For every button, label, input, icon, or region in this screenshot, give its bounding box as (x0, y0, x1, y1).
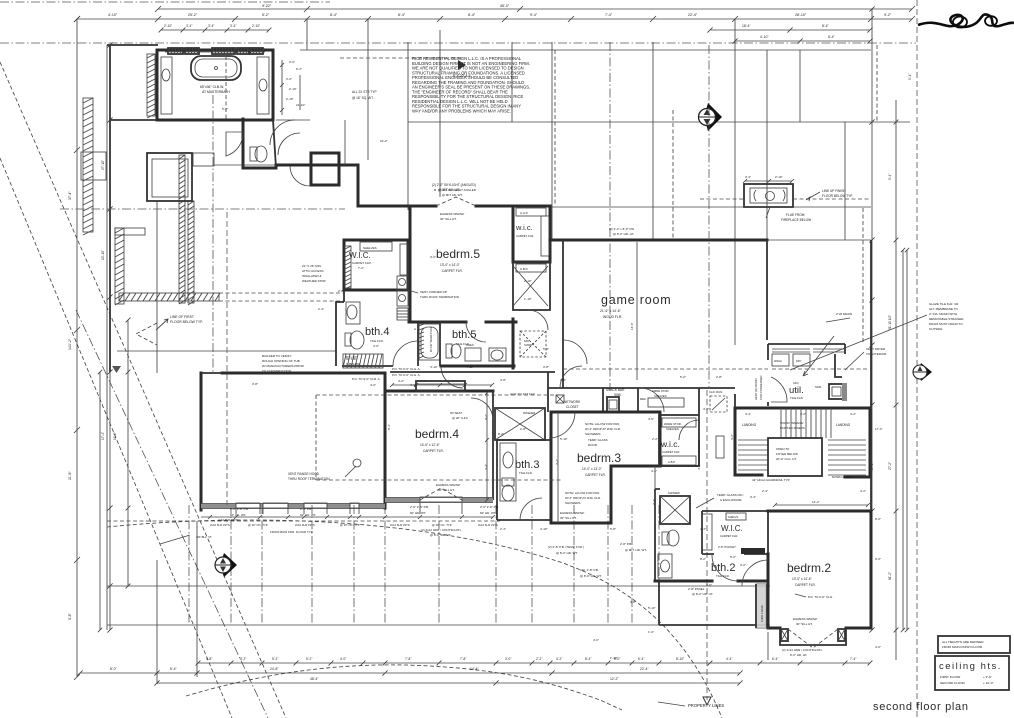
top guide vertical x307 (306, 19, 308, 50)
svg-text:OPEN TO: OPEN TO (776, 447, 790, 451)
svg-text:3'-8": 3'-8" (630, 600, 636, 604)
wic bottom box (662, 456, 696, 465)
svg-text:7'-8": 7'-8" (405, 657, 411, 661)
svg-text:ALL 2X STR TYP: ALL 2X STR TYP (352, 90, 377, 94)
svg-text:4'-2": 4'-2" (398, 379, 404, 383)
top guide vertical x440 (439, 30, 441, 197)
svg-text:22'-4": 22'-4" (688, 13, 698, 17)
bottom dim line y673 (80, 672, 740, 674)
svg-text:CEI. 2'-8" P.B.: CEI. 2'-8" P.B. (580, 568, 599, 572)
svg-text:20F BLL. VT.: 20F BLL. VT. (196, 535, 212, 539)
grid dash-dot verticals bottom (188, 505, 190, 625)
svg-text:3'-4": 3'-4" (208, 24, 214, 28)
svg-text:FOYER BELOW: FOYER BELOW (776, 452, 798, 456)
bth5 toilet (446, 344, 452, 358)
wic left walls (344, 240, 408, 290)
svg-text:3'-0": 3'-0" (505, 657, 511, 661)
north/street squiggle symbol top right (918, 14, 1014, 27)
corridor stepped wall (276, 165, 410, 206)
svg-text:9'-0" HD. HT.: 9'-0" HD. HT. (790, 653, 807, 657)
svg-text:@ 8FT AD. WT.: @ 8FT AD. WT. (438, 188, 460, 192)
svg-text:5'-0": 5'-0" (730, 555, 736, 559)
bth3 toilet (502, 478, 514, 486)
bth5 bottom wall (441, 365, 514, 368)
door arc bedrm4 entry (471, 398, 493, 420)
svg-text:FIREPLACE BELOW: FIREPLACE BELOW (781, 218, 811, 222)
svg-text:60"x42" WHIRLPOOL: 60"x42" WHIRLPOOL (429, 326, 433, 352)
svg-text:8'-1": 8'-1" (387, 424, 391, 430)
svg-text:+ 10'-0": + 10'-0" (983, 681, 994, 685)
bedrm4 top dim line (392, 384, 492, 386)
svg-text:bth.4: bth.4 (365, 326, 389, 338)
svg-text:21'-6" x 14'-6": 21'-6" x 14'-6" (600, 309, 622, 313)
svg-text:LINE OF FIRST: LINE OF FIRST (170, 315, 194, 319)
svg-text:TEMP. GLASS: TEMP. GLASS (588, 438, 608, 442)
svg-text:8'-4": 8'-4" (468, 13, 476, 17)
svg-text:EGRESS WNDW/: EGRESS WNDW/ (440, 212, 464, 216)
svg-text:48'-4": 48'-4" (310, 677, 319, 681)
svg-text:DRAIN MUST DRAIN TO: DRAIN MUST DRAIN TO (929, 322, 963, 326)
roof vline x408 (407, 42, 409, 210)
util dashed line (772, 368, 868, 370)
bottom long line y625 (107, 624, 770, 626)
svg-text:SHELVES: SHELVES (654, 394, 667, 398)
svg-text:7'-8": 7'-8" (460, 657, 466, 661)
svg-text:8'-2": 8'-2" (700, 557, 706, 561)
svg-text:W/ SEAT: W/ SEAT (450, 411, 462, 415)
svg-text:bedrm.5: bedrm.5 (436, 247, 480, 261)
guide horizontal y165 left (214, 164, 276, 166)
svg-text:W.I.C.: W.I.C. (349, 251, 371, 260)
svg-text:2'-4": 2'-4" (318, 307, 324, 311)
open room window sills (236, 503, 260, 508)
svg-text:28'-10": 28'-10" (795, 13, 807, 17)
svg-text:THRU ROOF TERMINATION: THRU ROOF TERMINATION (420, 295, 459, 299)
roof vline x767 (766, 50, 768, 240)
svg-text:LINEN: LINEN (466, 343, 474, 347)
svg-text:4'-6": 4'-6" (648, 417, 654, 421)
bth4 sink (347, 305, 357, 319)
svg-text:21'-10": 21'-10" (296, 103, 305, 107)
svg-text:9'-4": 9'-4" (888, 174, 892, 180)
svg-text:17'-4": 17'-4" (875, 427, 883, 431)
svg-text:2"x8 DRAIN: 2"x8 DRAIN (836, 312, 852, 316)
svg-text:W/ MANUFACTURERS PRIOR: W/ MANUFACTURERS PRIOR (262, 364, 305, 368)
svg-text:SPA: SPA (524, 339, 529, 343)
svg-text:FLUE FROM: FLUE FROM (786, 213, 805, 217)
svg-text:9'-4": 9'-4" (530, 13, 538, 17)
svg-text:2x12 FLR JSTS: 2x12 FLR JSTS (390, 523, 410, 527)
svg-text:2'-2": 2'-2" (536, 657, 542, 661)
bottom dim line y663 (198, 662, 870, 664)
bth3 door arc (520, 498, 542, 520)
svg-text:SHWR: SHWR (524, 343, 532, 347)
roof vline x673 dashed (672, 110, 674, 240)
roof vline x653 (652, 42, 654, 240)
section marker circle bottom left (215, 553, 237, 577)
svg-text:7'-4": 7'-4" (850, 657, 856, 661)
bedrm5 window peak (436, 197, 476, 206)
svg-text:W/ 3" DROP AT 2ND. FLR.: W/ 3" DROP AT 2ND. FLR. (585, 427, 621, 431)
util walls (768, 344, 845, 406)
svg-text:5'-2": 5'-2" (222, 107, 228, 111)
wic2 walls (702, 511, 768, 554)
vent corner note (408, 290, 418, 293)
svg-text:7'-2": 7'-2" (358, 266, 364, 270)
svg-text:WASH: WASH (774, 359, 782, 363)
bedrm4 bottom wall (385, 498, 493, 503)
svg-text:4'-4": 4'-4" (726, 657, 732, 661)
svg-text:bedrm.2: bedrm.2 (787, 561, 831, 575)
diagonal property line 1 (0, 62, 286, 718)
svg-text:42" HIGH GUARDRAIL TYP.: 42" HIGH GUARDRAIL TYP. (752, 478, 790, 482)
svg-text:+ 9'-0": + 9'-0" (983, 675, 992, 679)
svg-text:ROUGH OPENING OF TUB: ROUGH OPENING OF TUB (262, 359, 300, 363)
svg-text:22'-4": 22'-4" (640, 667, 649, 671)
svg-text:LANDING: LANDING (742, 423, 757, 427)
svg-text:WEATHER STRP.: WEATHER STRP. (302, 279, 326, 283)
svg-text:SHELVS.: SHELVS. (728, 515, 739, 519)
bth2 door arc (712, 555, 738, 581)
top guide vertical x368 (367, 19, 369, 160)
bottom-left vertical x157 (156, 560, 158, 684)
open room right wall (384, 373, 387, 508)
wic shelves box (360, 242, 392, 251)
grid dash-dot horizontal y520 (107, 520, 500, 522)
svg-text:12'-2": 12'-2" (610, 677, 619, 681)
svg-text:5'-8": 5'-8" (610, 527, 616, 531)
section marker circle top middle (699, 103, 723, 131)
svg-text:3'-4": 3'-4" (186, 24, 192, 28)
svg-text:5'-2": 5'-2" (262, 13, 270, 17)
svg-text:W.I.C.: W.I.C. (721, 524, 743, 533)
svg-text:6'-4": 6'-4" (772, 657, 778, 661)
bottom-left vertical x100 (99, 372, 101, 630)
svg-text:24'-8": 24'-8" (270, 667, 279, 671)
svg-text:8'-0": 8'-0" (110, 667, 118, 671)
svg-text:OUTSIDE: OUTSIDE (929, 327, 942, 331)
vent chase dashed vertical x863 (862, 208, 864, 344)
svg-text:5'-2": 5'-2" (272, 657, 278, 661)
corridor bottom wall y388 (548, 387, 735, 389)
svg-text:P.D. TO 9'-0" CLG. A.: P.D. TO 9'-0" CLG. A. (392, 367, 421, 371)
svg-text:FROM MAIN FINISH FLOOR: FROM MAIN FINISH FLOOR (942, 645, 983, 649)
bth2 toilet (662, 532, 669, 545)
hatched band horizontal y230 (115, 228, 145, 235)
svg-text:@ 8'-0" HD. HT.: @ 8'-0" HD. HT. (692, 592, 713, 596)
svg-text:3'-0": 3'-0" (289, 60, 295, 64)
svg-text:WASHER: WASHER (523, 411, 535, 415)
svg-text:2x10 FLR JSTS: 2x10 FLR JSTS (210, 523, 230, 527)
wic fixture boxes below (397, 276, 408, 289)
svg-text:2x10 FLR JSTS: 2x10 FLR JSTS (295, 523, 315, 527)
svg-text:2x12 FLR JSTS: 2x12 FLR JSTS (478, 523, 498, 527)
svg-text:@ 8FT. HD. WT.: @ 8FT. HD. WT. (625, 548, 647, 552)
game room center guide vertical (636, 242, 638, 380)
hall dash line (316, 479, 563, 481)
bedrm3 door arc (549, 412, 575, 438)
svg-text:SECOND FLOOR: SECOND FLOOR (940, 681, 966, 685)
svg-text:25'-2": 25'-2" (188, 13, 198, 17)
svg-text:REMOVABLE STRAINER.: REMOVABLE STRAINER. (929, 317, 964, 321)
svg-text:4'-0": 4'-0" (370, 383, 376, 387)
svg-text:3'-0": 3'-0" (430, 255, 436, 259)
open room left wall (200, 373, 203, 510)
top dimension line 4 right (735, 40, 870, 42)
svg-text:WARE STOR.: WARE STOR. (664, 422, 682, 426)
svg-text:8'-4": 8'-4" (585, 657, 591, 661)
util shelves rows (772, 348, 810, 350)
svg-text:(2) 2'-8" P.B. (TEMP. FXD.): (2) 2'-8" P.B. (TEMP. FXD.) (548, 545, 584, 549)
bedrm2 furr chase (756, 584, 766, 628)
svg-text:TILE FLR.: TILE FLR. (790, 396, 804, 400)
svg-text:W/ 3" DROP AT 2ND. FLR.: W/ 3" DROP AT 2ND. FLR. (565, 496, 601, 500)
svg-text:ATTIC ACCESS: ATTIC ACCESS (302, 269, 323, 273)
svg-text:9'-2": 9'-2" (884, 13, 892, 17)
svg-text:DOOR: DOOR (588, 443, 598, 447)
guide vertical x345 upper (344, 120, 346, 165)
svg-text:8'-4": 8'-4" (822, 24, 830, 28)
svg-text:4'-10": 4'-10" (760, 35, 769, 39)
svg-text:SNACK BAR: SNACK BAR (606, 388, 625, 392)
svg-text:AMRE STOR.: AMRE STOR. (652, 389, 670, 393)
svg-text:8'-4": 8'-4" (828, 35, 836, 39)
svg-text:bth.3: bth.3 (515, 459, 539, 471)
property line right vertical dashed (916, 0, 918, 718)
bth3 tub (500, 443, 516, 501)
svg-text:4'-10": 4'-10" (108, 13, 118, 17)
svg-text:1'-0": 1'-0" (648, 630, 654, 634)
svg-text:4'-0": 4'-0" (875, 645, 881, 649)
wall segment right of game room (porch) (766, 240, 768, 340)
svg-text:A: A (414, 327, 416, 331)
clr run dashed box (710, 396, 727, 412)
svg-text:ALL HEIGHTS ARE DEFINED: ALL HEIGHTS ARE DEFINED (942, 640, 984, 644)
svg-text:4'-2": 4'-2" (730, 434, 734, 440)
svg-text:8'-0": 8'-0" (875, 517, 881, 521)
mid dim verticals (486, 393, 488, 500)
svg-text:@ 8'-0" HD. WT.: @ 8'-0" HD. WT. (580, 574, 602, 578)
bedrm2 wall left lower (755, 584, 757, 628)
bth5 linen box (465, 348, 481, 361)
svg-text:CLOSET: CLOSET (566, 405, 579, 409)
tick marks along y505 wall dims (208, 515, 212, 519)
svg-text:37'-4": 37'-4" (68, 191, 72, 200)
svg-text:14'-6" x 12'-6": 14'-6" x 12'-6" (420, 443, 440, 447)
closet below wic (513, 262, 550, 310)
svg-text:2'-2": 2'-2" (652, 437, 658, 441)
open room top-left step (201, 372, 222, 374)
stairwell outer walls (735, 408, 870, 477)
bath vanity left (161, 57, 172, 114)
util leader arrow (803, 336, 834, 376)
svg-text:(2) 2x12 HDR / CONT'D/LNTL: (2) 2x12 HDR / CONT'D/LNTL (782, 648, 823, 652)
wic left side strips (345, 246, 351, 288)
svg-text:ALT. MEMBRANE TO: ALT. MEMBRANE TO (929, 307, 959, 311)
dash-dot grid vertical x213 upper (212, 95, 214, 372)
dash-dot line y209 (60, 208, 345, 210)
svg-text:DRY: DRY (796, 359, 802, 363)
svg-text:4'-6": 4'-6" (373, 344, 379, 348)
bottom long line y586 (107, 585, 770, 587)
svg-text:P.D. TO 9'-0" CLG.: P.D. TO 9'-0" CLG. (808, 595, 833, 599)
svg-text:30" SILL HT.: 30" SILL HT. (796, 622, 813, 626)
svg-text:9'-22": 9'-22" (262, 4, 272, 8)
bth4 toilet (345, 333, 351, 346)
svg-text:VENT CORNER F/P: VENT CORNER F/P (420, 290, 447, 294)
triangle marker left wall (112, 366, 121, 373)
svg-text:(3) 4'-0" x 8'-0" FW: (3) 4'-0" x 8'-0" FW (609, 227, 634, 231)
svg-text:5'-10": 5'-10" (648, 606, 656, 610)
svg-text:P.O. TO 9'-0" CLR. A.: P.O. TO 9'-0" CLR. A. (352, 377, 381, 381)
svg-text:2'-10": 2'-10" (286, 97, 294, 101)
svg-text:2'-10": 2'-10" (775, 175, 783, 179)
util water heater box (829, 384, 843, 399)
svg-text:5'-0": 5'-0" (680, 375, 686, 379)
svg-text:10'-10": 10'-10" (101, 250, 105, 260)
fireplace leader note (806, 192, 820, 201)
svg-text:9'-4": 9'-4" (908, 74, 912, 80)
door arc wc 2 (528, 310, 548, 330)
svg-text:CARPET FLR.: CARPET FLR. (352, 261, 372, 265)
porch bottom walls right (659, 581, 756, 625)
bth4 divider wall x418 (417, 322, 419, 366)
svg-text:5'-2": 5'-2" (240, 657, 246, 661)
left dim line x128 (127, 320, 129, 586)
svg-text:SHELVES: SHELVES (363, 246, 377, 250)
svg-text:2'-10": 2'-10" (252, 24, 260, 28)
door arc game room entry (563, 340, 587, 364)
svg-text:CARPET FLR.: CARPET FLR. (585, 473, 606, 477)
svg-text:LINE UP FINISH: LINE UP FINISH (822, 189, 846, 193)
tub right wall x440 (439, 322, 441, 366)
stair treads left horizontal (738, 439, 768, 441)
svg-text:4'-2": 4'-2" (850, 412, 856, 416)
dash-dot vertical x709 upper (708, 45, 710, 388)
top dimension line 3 left (161, 29, 269, 31)
svg-text:second floor plan: second floor plan (873, 701, 969, 713)
svg-text:(2) 2'-0" SKYLIGHT (ANGLED): (2) 2'-0" SKYLIGHT (ANGLED) (432, 183, 476, 187)
svg-text:8'-10": 8'-10" (676, 657, 684, 661)
bth4 tub hatched (343, 354, 383, 368)
bth2 walls bottom (655, 554, 768, 581)
dashed door triangle left wall (136, 323, 157, 345)
game room left wall lower (562, 340, 564, 388)
svg-text:A.A.P.: A.A.P. (520, 211, 528, 215)
svg-text:NETWORK: NETWORK (564, 400, 581, 404)
hatched strip left of bath (147, 54, 155, 116)
stair treads right horizontal (828, 439, 866, 441)
roof line y207 over game room (552, 206, 871, 208)
roof line y50 (300, 49, 871, 51)
svg-text:w.i.c.: w.i.c. (515, 223, 533, 232)
svg-text:CARPET FLR.: CARPET FLR. (423, 449, 444, 453)
svg-text:ceiling hts.: ceiling hts. (939, 661, 1002, 672)
heights note box (938, 636, 1010, 653)
svg-text:FIRST FLOOR: FIRST FLOOR (940, 675, 961, 679)
svg-text:2'-10": 2'-10" (524, 279, 532, 283)
door arcs corridor (278, 133, 300, 155)
roof vline x552 (551, 42, 553, 240)
svg-text:CARPET FLR.: CARPET FLR. (662, 450, 680, 454)
wic shelves right strip (541, 216, 549, 256)
svg-text:bth.5: bth.5 (452, 329, 476, 341)
wic top small box (516, 208, 546, 216)
balcony bump below bedrm2 (780, 628, 846, 645)
svg-text:2'-0" 2'-8" P.B.: 2'-0" 2'-8" P.B. (230, 507, 249, 511)
dashed interior line (226, 212, 228, 505)
band continuation double dash to wic (219, 292, 344, 294)
roof vline dashed x610 (609, 42, 611, 390)
roof vline x512 (511, 42, 513, 122)
svg-text:3'-4": 3'-4" (230, 24, 236, 28)
svg-text:21'-8": 21'-8" (68, 471, 72, 480)
svg-text:TILE FLR.: TILE FLR. (519, 471, 533, 475)
svg-text:CLR. RUN.: CLR. RUN. (709, 390, 723, 394)
svg-text:4'-10": 4'-10" (540, 527, 548, 531)
svg-text:4'-0": 4'-0" (340, 657, 346, 661)
right dotted vertical x877 (876, 45, 878, 122)
svg-text:TILE FLR.: TILE FLR. (370, 339, 384, 343)
svg-text:EGRESS WNDW/: EGRESS WNDW/ (560, 511, 584, 515)
svg-text:2'-0" 2'-8" P.B.: 2'-0" 2'-8" P.B. (480, 505, 499, 509)
svg-text:4'-8": 4'-8" (500, 378, 506, 382)
svg-text:SHOWER: SHOWER (668, 491, 680, 495)
svg-text:SINK: SINK (815, 385, 822, 389)
svg-text:WOOD TREADS/: WOOD TREADS/ (780, 421, 804, 425)
svg-text:DOWN 21 RIS.: DOWN 21 RIS. (832, 475, 853, 479)
right dimension line x896 (895, 100, 897, 660)
svg-text:REF.: REF. (640, 397, 647, 401)
bth2 toilet room (655, 489, 660, 581)
svg-text:14'-0" x 13'-0": 14'-0" x 13'-0" (582, 467, 602, 471)
svg-text:SHELVES: SHELVES (666, 427, 679, 431)
svg-text:4'-4": 4'-4" (700, 527, 706, 531)
svg-text:INSULATED &: INSULATED & (302, 274, 321, 278)
wic bedrm3 shelves (662, 418, 696, 427)
svg-text:2'-10": 2'-10" (164, 24, 172, 28)
svg-text:65"x36" CLB.W.: 65"x36" CLB.W. (200, 85, 224, 89)
toilet wc1 (250, 147, 257, 161)
svg-text:2'-0" 2'-8" P.B.: 2'-0" 2'-8" P.B. (410, 505, 429, 509)
svg-text:5'-10": 5'-10" (560, 437, 568, 441)
svg-text:3'-0": 3'-0" (286, 77, 292, 81)
stair treads middle vertical lines (780, 408, 782, 438)
whirlpool tub niche (419, 324, 440, 360)
svg-text:4'-10": 4'-10" (466, 365, 474, 369)
roof line y122 (408, 121, 910, 123)
bedrm2 walls (768, 511, 871, 628)
svg-text:3'-8": 3'-8" (252, 382, 258, 386)
svg-text:13'-4": 13'-4" (812, 500, 820, 504)
svg-text:A.B.P.: A.B.P. (668, 460, 676, 464)
svg-text:@ 20" A.F.F.: @ 20" A.F.F. (452, 416, 469, 420)
bottom vertical dashed to triangle (706, 390, 708, 700)
svg-text:6'-4": 6'-4" (638, 657, 644, 661)
right dim pair x903 x907 (902, 250, 904, 630)
right zone vertical x800 (799, 50, 801, 122)
fireplace block (744, 184, 793, 207)
svg-text:14'-6": 14'-6" (630, 322, 634, 330)
svg-text:4'-10": 4'-10" (430, 365, 438, 369)
upper area horizontal y120 thin ext (276, 119, 310, 121)
svg-text:2'-8" P.B.: 2'-8" P.B. (620, 542, 632, 546)
svg-text:bth.2: bth.2 (711, 562, 735, 574)
small shelf box (193, 153, 214, 166)
svg-text:2'-8": 2'-8" (716, 375, 722, 379)
svg-text:SHOWERS: SHOWERS (585, 432, 601, 436)
upper hallway dims line x555 (554, 50, 556, 206)
